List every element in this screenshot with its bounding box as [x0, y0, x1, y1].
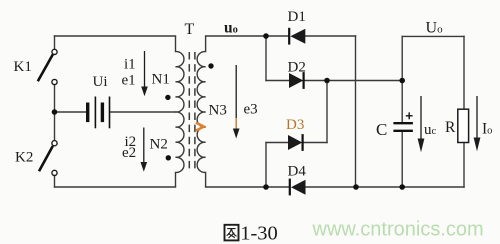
node output top junction: [399, 78, 405, 84]
arrow e3: [233, 65, 240, 139]
svg-text:i1: i1: [124, 57, 136, 73]
wire left vertical upper: [54, 36, 56, 49]
orange mark on N3: [196, 123, 204, 131]
arrow i1/e1: [141, 51, 148, 96]
svg-text:D3: D3: [286, 117, 304, 133]
svg-text:R: R: [445, 119, 456, 136]
svg-text:D1: D1: [288, 9, 306, 25]
svg-text:C: C: [376, 120, 387, 139]
svg-text:e2: e2: [122, 145, 136, 161]
svg-text:T: T: [185, 21, 195, 38]
arrow Io: [474, 96, 481, 151]
svg-text:K1: K1: [14, 59, 32, 75]
transformer secondary winding N3: [197, 36, 205, 187]
switch K1: [38, 49, 57, 84]
wire primary top: [55, 35, 176, 37]
svg-text:N2: N2: [150, 137, 168, 153]
svg-text:N1: N1: [152, 71, 170, 87]
wire D3 row right: [303, 142, 328, 144]
wire D2 row left: [266, 80, 289, 82]
wire D1 bus vertical: [355, 36, 357, 187]
svg-text:e1: e1: [122, 73, 136, 89]
svg-text:www.cntronics.com: www.cntronics.com: [312, 219, 484, 241]
arrow uc: [418, 96, 425, 152]
battery Ui: [86, 97, 110, 129]
resistor R: [458, 109, 469, 142]
svg-text:Ui: Ui: [93, 74, 108, 90]
wire output vertical upper: [401, 36, 403, 123]
wire primary bottom: [55, 186, 176, 188]
transformer core: [189, 52, 195, 172]
node N1 polarity dot: [165, 95, 170, 100]
svg-text:N3: N3: [209, 102, 227, 118]
node secondary top junction: [263, 33, 269, 39]
wire secondary bottom left: [206, 186, 290, 188]
caption glyph 图: [225, 225, 239, 241]
wire D1 row right: [306, 35, 356, 37]
wire D3 branch vertical: [265, 143, 267, 188]
switch K2: [39, 141, 57, 176]
wire D3 up vertical: [326, 81, 328, 143]
wire left vertical lower: [54, 176, 56, 188]
wire battery left: [55, 111, 87, 113]
wire output bus top: [402, 35, 464, 37]
wire left vertical middle: [54, 85, 56, 141]
svg-text:e3: e3: [244, 102, 258, 118]
wire secondary bottom right: [306, 186, 465, 188]
svg-text:K2: K2: [15, 150, 33, 166]
diode D3: [288, 134, 303, 151]
wire secondary top: [206, 35, 289, 37]
node N2 polarity dot: [166, 155, 171, 160]
wire D2 branch vertical: [265, 36, 267, 81]
capacitor C: [393, 112, 413, 130]
transformer T primary winding N1/N2: [176, 36, 184, 187]
wire output vertical lower: [401, 131, 403, 187]
arrow i2/e2: [141, 128, 148, 172]
node capacitor bottom junction: [399, 184, 405, 190]
svg-text:D4: D4: [288, 163, 307, 179]
node D2-D3 junction: [324, 78, 330, 84]
wire D2 row right: [304, 80, 403, 82]
node battery tap: [52, 109, 58, 115]
diode D4: [290, 179, 306, 196]
diode D1: [289, 28, 305, 45]
node N3 polarity dot: [208, 63, 213, 68]
wire battery right / center tap: [110, 111, 176, 113]
wire R vertical lower: [463, 143, 465, 188]
wire R vertical upper: [463, 36, 465, 109]
diode D2: [289, 72, 304, 89]
node secondary bottom junction: [263, 184, 269, 190]
node D1 bus bottom junction: [353, 184, 359, 190]
svg-text:1-30: 1-30: [240, 223, 278, 244]
svg-text:D2: D2: [288, 60, 306, 76]
wire D3 row left: [266, 142, 288, 144]
